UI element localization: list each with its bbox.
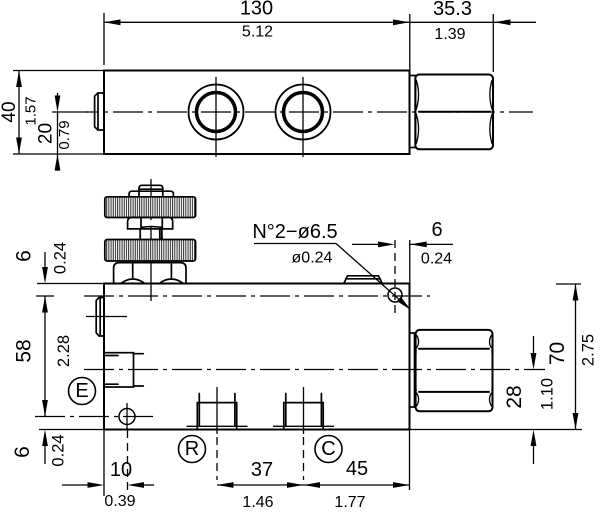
svg-text:E: E <box>75 380 88 402</box>
hex fitting (top view) <box>415 75 493 150</box>
centerline (top view) <box>86 111 533 113</box>
R port centerline <box>216 387 218 434</box>
dim 37 <box>217 484 304 486</box>
dim 130 extension lines <box>103 13 105 65</box>
svg-text:45: 45 <box>346 458 368 480</box>
dim 28 <box>533 336 535 355</box>
main centerline <box>84 369 545 371</box>
dim 70 <box>575 284 577 430</box>
svg-text:6: 6 <box>13 250 36 262</box>
knob centerline <box>150 179 152 301</box>
dim 35.3 extension line <box>492 14 494 72</box>
small hole bottom-left <box>119 409 135 425</box>
dim 20 tick <box>52 111 88 113</box>
svg-text:N°2−ø6.5: N°2−ø6.5 <box>252 221 337 243</box>
lock nut <box>114 263 186 283</box>
stem <box>139 229 141 240</box>
neck (top view) <box>410 76 416 148</box>
svg-text:6: 6 <box>431 219 442 241</box>
svg-text:1.10: 1.10 <box>539 378 557 410</box>
svg-text:37: 37 <box>251 459 273 481</box>
knob cap <box>139 185 163 196</box>
dim 40 line <box>18 71 20 155</box>
label C <box>315 436 342 463</box>
dim 58 <box>44 296 46 417</box>
svg-text:40: 40 <box>0 101 20 122</box>
port hole circle 1 inner <box>197 93 236 132</box>
C port centerline <box>303 387 305 434</box>
svg-text:1.46: 1.46 <box>242 494 273 511</box>
svg-text:70: 70 <box>546 342 569 365</box>
crosshair circle 1 <box>215 77 217 157</box>
svg-text:28: 28 <box>503 385 526 408</box>
svg-text:6: 6 <box>11 446 34 458</box>
left plug (top view) <box>95 93 104 130</box>
E port <box>104 353 134 387</box>
top boss <box>344 276 382 284</box>
body outline (top view) <box>104 71 410 155</box>
top holes centerline <box>84 295 430 297</box>
C port <box>284 403 323 429</box>
dim 10 <box>62 484 89 486</box>
dim 45 <box>304 484 410 486</box>
dim 130 line <box>104 21 410 23</box>
svg-text:1.39: 1.39 <box>434 26 465 43</box>
neck (bottom view) <box>410 333 415 407</box>
svg-text:35.3: 35.3 <box>433 0 472 20</box>
hex fitting (bottom view) <box>416 330 493 411</box>
label E <box>69 378 96 405</box>
dim 6 top left <box>44 252 46 269</box>
knurled disk 2 <box>105 240 196 262</box>
plug tick line <box>86 316 127 318</box>
svg-text:0.79: 0.79 <box>56 120 73 149</box>
svg-text:58: 58 <box>13 339 36 362</box>
right dims <box>410 429 583 431</box>
R port <box>197 403 236 429</box>
hole marker circle <box>388 288 402 302</box>
svg-text:0.24: 0.24 <box>52 242 70 274</box>
dim 35.3 line <box>410 21 494 23</box>
knob collar <box>129 191 173 196</box>
svg-text:20: 20 <box>36 123 57 144</box>
svg-text:1.77: 1.77 <box>334 494 365 511</box>
svg-text:R: R <box>185 438 199 460</box>
svg-text:ø0.24: ø0.24 <box>292 250 333 267</box>
bottom dims <box>103 430 105 497</box>
port hole circle 2 inner <box>284 93 323 132</box>
svg-text:1.57: 1.57 <box>23 96 40 125</box>
svg-text:C: C <box>321 438 335 460</box>
dim 6 top right <box>409 240 411 284</box>
svg-text:0.39: 0.39 <box>104 493 135 510</box>
knurled disk 1 <box>105 197 196 218</box>
leader N2-6.5 <box>336 244 409 309</box>
dim 20 line <box>57 112 59 154</box>
svg-text:0.24: 0.24 <box>50 434 68 466</box>
dim 6 bottom left <box>42 430 48 447</box>
svg-text:2.28: 2.28 <box>55 335 73 367</box>
svg-text:0.24: 0.24 <box>421 251 452 268</box>
left plug (bottom view) <box>96 298 104 337</box>
small hole bottom-left centerline <box>35 416 155 418</box>
left dims: extension lines <box>37 283 104 285</box>
svg-text:10: 10 <box>110 459 132 481</box>
svg-text:130: 130 <box>240 0 273 20</box>
svg-text:2.75: 2.75 <box>580 334 598 366</box>
port hole circle 2 outer <box>276 85 331 140</box>
port hole circle 1 outer <box>189 85 244 140</box>
crosshair circle 2 <box>302 77 304 157</box>
dim 40 extension lines <box>13 70 104 72</box>
svg-text:5.12: 5.12 <box>242 24 273 41</box>
label R <box>179 436 206 463</box>
hex nut under disk 1 <box>128 217 173 229</box>
body outline (bottom view) <box>104 284 410 430</box>
